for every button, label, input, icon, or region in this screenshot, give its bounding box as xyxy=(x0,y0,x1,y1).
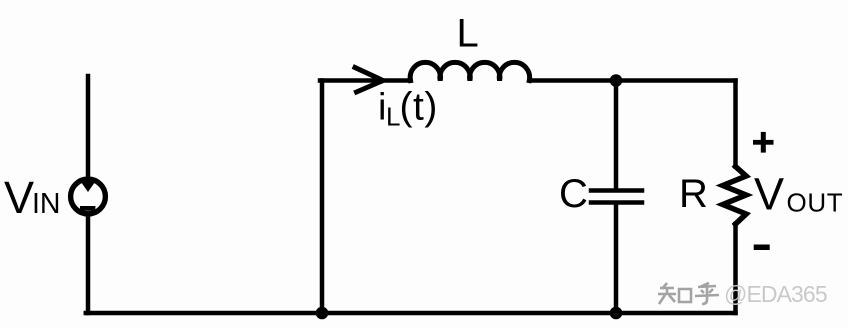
voltage source VIN xyxy=(71,179,106,214)
node: middle branch to bottom rail junction xyxy=(316,307,329,320)
resistor R xyxy=(723,81,746,314)
wire: bottom rail xyxy=(86,311,736,316)
wire: left vertical (bottom of VIN) xyxy=(86,214,91,314)
svg-text:IN: IN xyxy=(32,188,61,220)
svg-text:C: C xyxy=(559,172,588,216)
node: top of capacitor junction xyxy=(610,74,623,87)
label + (polarity plus) xyxy=(753,132,774,153)
svg-text:V: V xyxy=(754,169,784,220)
svg-text:@EDA365: @EDA365 xyxy=(724,281,827,307)
svg-text:L: L xyxy=(386,102,400,132)
svg-text:(t): (t) xyxy=(400,86,438,129)
wire: top rail right segment xyxy=(530,78,736,83)
wire: middle vertical xyxy=(320,81,325,314)
svg-text:L: L xyxy=(457,12,479,56)
label iL(t) xyxy=(378,86,438,132)
label VOUT xyxy=(754,169,843,220)
label VIN xyxy=(4,172,61,223)
label - (polarity minus) xyxy=(754,245,770,251)
inductor L xyxy=(410,62,529,80)
wire: left vertical (top of VIN) xyxy=(86,76,91,181)
svg-text:OUT: OUT xyxy=(787,188,844,218)
svg-text:V: V xyxy=(4,172,34,223)
current arrow iL xyxy=(355,68,383,93)
svg-text:R: R xyxy=(679,172,708,216)
hu character xyxy=(695,283,719,304)
watermark 知乎 @EDA365 xyxy=(658,283,719,304)
node: bottom of capacitor junction xyxy=(610,307,623,320)
capacitor C xyxy=(591,81,642,314)
zhi character xyxy=(658,283,676,304)
wire: top rail left segment xyxy=(320,78,411,83)
